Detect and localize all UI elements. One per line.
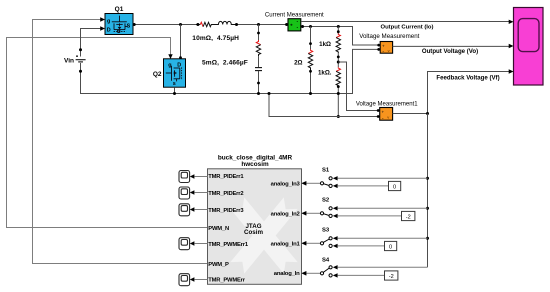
svg-text:Q1: Q1 <box>115 6 124 13</box>
svg-text:+: + <box>382 43 385 48</box>
wire current measurement elec out to node <box>301 25 378 45</box>
mosfet Q2 <box>153 59 186 87</box>
wire Vin minus to ground rail <box>79 49 378 93</box>
svg-text:+: + <box>382 110 385 115</box>
switch S2 <box>302 198 428 219</box>
svg-text:PWM_N: PWM_N <box>208 226 229 232</box>
port arrow analog_In <box>302 271 307 275</box>
svg-text:Voltage Measurement: Voltage Measurement <box>359 33 419 40</box>
svg-text:1kΩ: 1kΩ <box>319 41 331 48</box>
svg-text:-: - <box>382 115 384 121</box>
constant 0 (S3) <box>385 241 397 250</box>
current measurement block <box>265 12 324 31</box>
wire PWM_P net: JTAG PWM_P output up left side to Q1 gate <box>33 17 208 263</box>
resistor 2 ohm branch <box>294 27 313 96</box>
svg-text:Vin: Vin <box>64 58 74 65</box>
resistor 10m ohm (series RL) <box>196 22 213 26</box>
wire divider midpoint to voltage measurement1 plus <box>338 62 377 111</box>
port arrow analog_In1 <box>302 241 307 245</box>
svg-text:10mΩ, 4.75µH: 10mΩ, 4.75µH <box>192 35 239 42</box>
scope TMR_PIDErr3 <box>179 204 208 216</box>
svg-text:-2: -2 <box>406 214 411 220</box>
voltage measurement block <box>359 33 419 55</box>
scope TMR_PIDErr2 <box>179 187 208 199</box>
xilinx watermark <box>230 197 297 273</box>
svg-text:Voltage Measurement1: Voltage Measurement1 <box>356 102 418 108</box>
svg-text:v: v <box>387 115 389 120</box>
port arrow analog_In3 <box>302 181 307 185</box>
svg-text:D: D <box>107 28 111 34</box>
port arrow analog_In2 <box>302 211 307 215</box>
wire Vin plus to Q1 drain <box>79 26 105 56</box>
switch S1 <box>302 168 428 189</box>
constant -2 (S4) <box>385 271 398 280</box>
svg-text:g: g <box>107 18 110 24</box>
scope block <box>509 8 543 86</box>
mosfet Q1 <box>105 6 133 34</box>
wire voltage measurement out (Vo) to scope <box>393 45 510 47</box>
scope TMR_PWMErr <box>179 274 208 286</box>
svg-text:s: s <box>173 81 176 87</box>
inductor 4.75uH (series RL) <box>213 21 237 24</box>
svg-text:Output Voltage (Vo): Output Voltage (Vo) <box>422 48 478 55</box>
svg-text:analog_In2: analog_In2 <box>271 212 301 218</box>
svg-text:hwcosim: hwcosim <box>241 161 269 168</box>
svg-text:-: - <box>382 49 384 55</box>
svg-text:TMR_PWMErr: TMR_PWMErr <box>208 278 245 284</box>
scope TMR_PIDErr1 <box>179 171 208 183</box>
svg-text:TMR_PIDErr3: TMR_PIDErr3 <box>208 208 244 214</box>
wire rail tap to voltage measurement1 minus <box>268 92 378 117</box>
svg-text:0: 0 <box>389 244 392 250</box>
svg-text:analog_In3: analog_In3 <box>271 181 301 187</box>
wire current measurement signal out (Io) to scope <box>301 21 510 23</box>
svg-text:TMR_PIDErr2: TMR_PIDErr2 <box>208 191 243 197</box>
svg-text:0: 0 <box>393 184 396 190</box>
svg-text:TMR_PIDErr1: TMR_PIDErr1 <box>208 174 244 180</box>
svg-text:1kΩ.: 1kΩ. <box>318 70 332 77</box>
wire Q2 source to rail <box>173 87 176 95</box>
svg-text:TMR_PWMErr1: TMR_PWMErr1 <box>208 242 249 248</box>
svg-text:S1: S1 <box>322 168 330 174</box>
wire Q2 drain drop <box>179 25 182 60</box>
svg-text:analog_In1: analog_In1 <box>271 241 301 247</box>
voltage measurement1 block <box>356 102 418 122</box>
capacitor branch 5mohm + 2.466uF <box>255 25 262 96</box>
svg-text:Output Current (Io): Output Current (Io) <box>380 25 433 31</box>
svg-text:5mΩ, 2.466µF: 5mΩ, 2.466µF <box>202 59 248 66</box>
svg-text:Feedback Voltage (Vf): Feedback Voltage (Vf) <box>436 74 499 81</box>
svg-text:analog_In: analog_In <box>274 271 300 277</box>
svg-text:S4: S4 <box>322 258 330 264</box>
svg-text:v: v <box>388 48 390 53</box>
wire Q1 source to main node <box>133 23 196 26</box>
svg-text:S3: S3 <box>322 228 330 234</box>
resistor divider 1k / 1k branch <box>318 27 341 119</box>
svg-text:S2: S2 <box>322 198 330 204</box>
switch S4 <box>302 258 428 278</box>
svg-text:PWM_P: PWM_P <box>208 262 229 268</box>
svg-text:Q2: Q2 <box>153 71 162 78</box>
wire inductor to current measurement <box>235 23 288 26</box>
scope TMR_PWMErr1 <box>179 238 208 250</box>
voltage source Vin <box>64 55 86 64</box>
svg-text:Cosim: Cosim <box>244 229 263 236</box>
wire PWM_N net: JTAG PWM_N output up far-left side to Q2 gate <box>7 38 208 228</box>
svg-text:Current Measurement: Current Measurement <box>265 12 324 18</box>
wire voltage measurement1 out (Vf) to scope and switches <box>393 72 510 268</box>
constant 0 (S1) <box>389 181 401 190</box>
JTAG cosim block <box>208 154 302 284</box>
constant -2 (S2) <box>402 211 415 220</box>
svg-text:2Ω: 2Ω <box>294 60 302 67</box>
switch S3 <box>302 228 428 249</box>
svg-text:-2: -2 <box>389 274 394 280</box>
